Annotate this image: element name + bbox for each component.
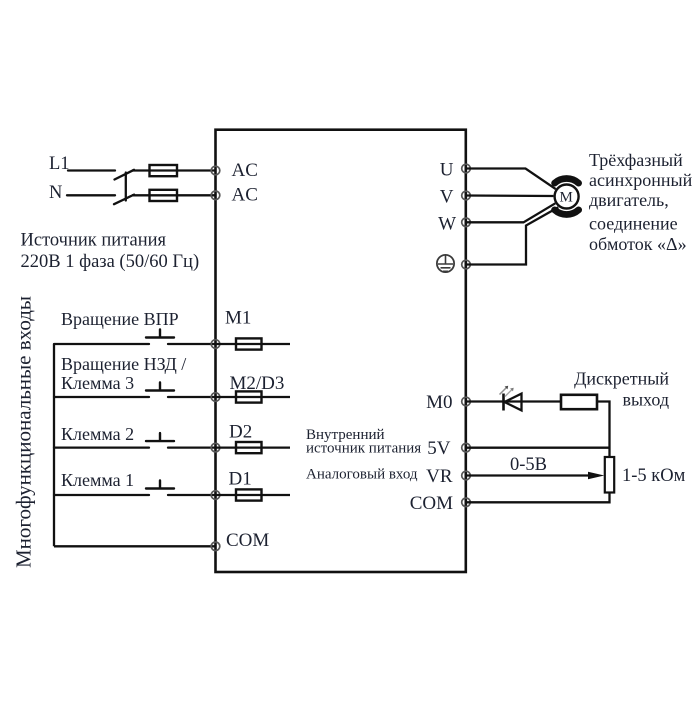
label D2 <box>229 422 252 443</box>
wire U to motor <box>466 169 556 190</box>
svg-text:M: M <box>560 190 573 206</box>
label: Клемма 2 <box>61 424 134 444</box>
label U <box>440 160 454 181</box>
svg-text:220В 1 фаза (50/60 Гц): 220В 1 фаза (50/60 Гц) <box>21 252 200 272</box>
inverter main box <box>216 130 466 572</box>
label 1-5 кОм <box>622 466 686 486</box>
svg-text:N: N <box>49 183 62 203</box>
label D1 <box>229 469 252 490</box>
terminal M0 <box>462 397 471 406</box>
wire M0 row <box>466 400 561 402</box>
svg-text:COM: COM <box>410 493 453 514</box>
label: Многофункциональные входы (vertical) <box>12 296 36 568</box>
terminal U <box>462 164 471 173</box>
svg-text:AC: AC <box>232 184 258 205</box>
svg-text:AC: AC <box>232 160 258 181</box>
label: Клемма 1 <box>61 470 134 490</box>
fuse F2 <box>150 190 178 201</box>
svg-text:COM: COM <box>226 530 269 551</box>
wire input D2 row <box>54 446 216 448</box>
svg-text:Источник питания: Источник питания <box>21 231 167 251</box>
label 5V <box>427 438 451 459</box>
svg-text:1-5 кОм: 1-5 кОм <box>622 466 686 486</box>
svg-text:M0: M0 <box>426 392 452 413</box>
terminal D2 <box>211 443 220 452</box>
wire input M1 row <box>54 343 216 345</box>
label: Аналоговый вход <box>306 467 418 483</box>
LED D1 out (triangle) <box>505 394 522 411</box>
wire N incoming <box>67 194 115 196</box>
svg-text:обмоток «Δ»: обмоток «Δ» <box>589 234 687 254</box>
wire internal D1 <box>216 494 291 496</box>
svg-text:Клемма 1: Клемма 1 <box>61 470 134 490</box>
label L1 <box>49 154 70 174</box>
terminal D1 <box>211 491 220 500</box>
wire input D1 row <box>54 494 216 496</box>
svg-text:VR: VR <box>426 466 453 487</box>
push-button SB2 <box>146 383 174 391</box>
wire internal D2 <box>216 446 291 448</box>
label: Вращение НЗД / Клемма 3 <box>61 354 186 393</box>
svg-text:Трёхфазный: Трёхфазный <box>589 150 683 170</box>
label VR <box>426 466 453 487</box>
label: Внутренний источник питания <box>306 427 421 456</box>
label: Дискретный выход <box>574 369 669 410</box>
label: Трёхфазный асинхронный двигатель <box>589 150 693 254</box>
label V <box>440 187 454 208</box>
potentiometer RP1 <box>605 457 614 493</box>
wire internal M2/D3 <box>216 396 291 398</box>
motor stator arc top <box>555 179 579 184</box>
label COM left <box>226 530 269 551</box>
label: Вращение ВПР <box>61 309 179 329</box>
LED D1 out (cathode bar) <box>502 394 505 411</box>
svg-text:соединение: соединение <box>589 214 678 234</box>
label AC (top) <box>232 160 258 181</box>
terminal W <box>462 218 471 227</box>
motor stator arc bottom <box>555 210 579 215</box>
switch S1 linkage <box>125 173 127 201</box>
wire input COM row <box>54 545 216 547</box>
wire internal M1 <box>216 343 291 345</box>
fuse internal M2/D3 <box>236 391 262 402</box>
svg-text:W: W <box>438 214 456 235</box>
terminal AC1 <box>211 166 220 175</box>
terminal AC2 <box>211 191 220 200</box>
wire 5V row <box>466 447 610 449</box>
fuse internal M1 <box>236 338 262 349</box>
terminal V <box>462 191 471 200</box>
switch S1 pole N (blade) <box>114 195 134 205</box>
svg-text:0-5В: 0-5В <box>510 455 547 475</box>
svg-text:двигатель,: двигатель, <box>589 190 669 210</box>
wire L1 to terminal AC <box>132 169 216 171</box>
wire V to motor <box>466 194 553 197</box>
svg-text:Дискретный: Дискретный <box>574 369 669 389</box>
svg-text:Многофункциональные входы: Многофункциональные входы <box>12 296 36 568</box>
wire L1 incoming <box>68 169 115 171</box>
svg-text:Вращение ВПР: Вращение ВПР <box>61 309 179 329</box>
label: источник питания 220В 1 фаза <box>21 231 200 273</box>
push-button SB3 <box>146 433 174 441</box>
wire VR row with arrow <box>466 472 604 479</box>
label AC (bottom) <box>232 184 258 205</box>
terminal 5V <box>462 443 471 452</box>
ground symbol <box>437 255 454 272</box>
wire input M2/D3 row <box>54 396 216 398</box>
svg-text:D1: D1 <box>229 469 252 490</box>
label M0 <box>426 392 452 413</box>
fuse F1 <box>150 165 178 176</box>
wire COM row <box>466 493 610 503</box>
label M2/D3 <box>230 373 285 394</box>
wire resistor to corner <box>597 402 610 458</box>
label M1 <box>225 308 251 329</box>
terminal COM left <box>211 542 220 551</box>
svg-text:Клемма 3: Клемма 3 <box>61 373 134 393</box>
svg-text:Аналоговый вход: Аналоговый вход <box>306 467 418 483</box>
svg-text:5V: 5V <box>427 438 451 459</box>
input bus wire <box>53 344 55 546</box>
terminal M2/D3 <box>211 393 220 402</box>
svg-text:источник питания: источник питания <box>306 440 421 456</box>
svg-text:выход: выход <box>622 390 669 410</box>
fuse internal D2 <box>236 442 262 453</box>
svg-text:U: U <box>440 160 454 181</box>
svg-text:D2: D2 <box>229 422 252 443</box>
wire N to terminal AC <box>132 194 216 196</box>
svg-text:M1: M1 <box>225 308 251 329</box>
fuse internal D1 <box>236 489 262 500</box>
terminal VR <box>462 471 471 480</box>
terminal COM right <box>462 498 471 507</box>
svg-text:L1: L1 <box>49 154 70 174</box>
resistor R1 <box>561 395 597 409</box>
push-button SB1 <box>146 330 174 338</box>
svg-text:асинхронный: асинхронный <box>589 170 693 190</box>
svg-text:Клемма 2: Клемма 2 <box>61 424 134 444</box>
motor M circle <box>555 185 579 209</box>
label COM right <box>410 493 453 514</box>
wire W to motor <box>466 203 555 222</box>
switch S1 pole L1 (blade) <box>115 170 135 180</box>
label W <box>438 214 456 235</box>
label N <box>49 183 62 203</box>
push-button SB4 <box>146 481 174 489</box>
wire PE loop to motor <box>466 207 558 264</box>
terminal PE <box>462 260 471 269</box>
svg-text:Вращение НЗД /: Вращение НЗД / <box>61 354 186 374</box>
svg-text:V: V <box>440 187 454 208</box>
label 0-5В <box>510 455 547 475</box>
terminal M1 <box>211 340 220 349</box>
LED light arrows <box>500 386 514 397</box>
